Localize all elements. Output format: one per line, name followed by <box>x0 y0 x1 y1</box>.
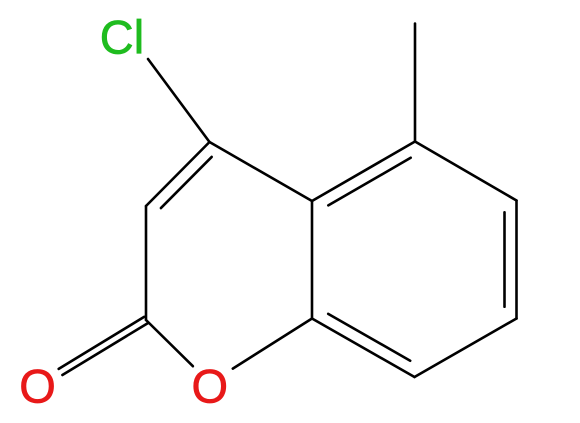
svg-text:O: O <box>19 360 56 413</box>
svg-text:O: O <box>192 360 229 413</box>
svg-text:Cl: Cl <box>100 10 144 63</box>
